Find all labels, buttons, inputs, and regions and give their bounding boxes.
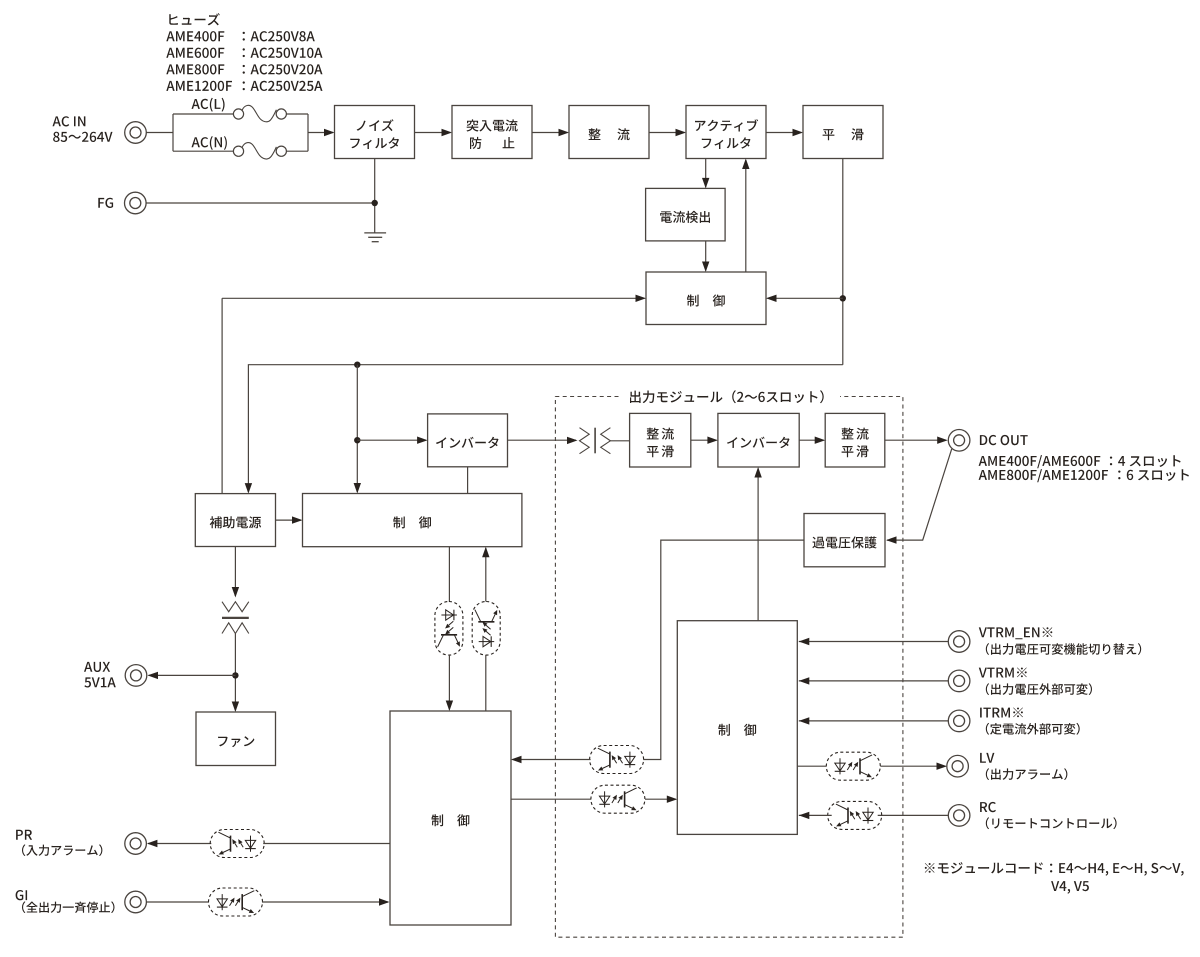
optocoupler LV [826,752,880,780]
wire to rectifier-smoothing 2 [799,439,824,441]
wire opto V1 to control C [448,655,450,709]
DC OUT label [980,435,1028,445]
terminal LV [947,755,969,777]
wire inverter to transformer T1 [508,439,577,441]
terminal VTRM_EN [948,631,970,653]
LV wire from module control [797,765,826,767]
AUX label [84,662,110,672]
wire control C to opto V2 [485,655,487,711]
wire smoothing down to control A right [842,159,844,365]
junction dot on smoothing line [840,295,846,301]
wire control B to opto V1 [448,547,450,602]
RC wire from terminal [878,814,949,816]
wire opto H1 to control C [513,759,591,761]
terminal RC [948,805,970,827]
optocoupler PR [210,830,264,858]
junction dot AUX [232,672,238,678]
wire active filter to smoothing [766,132,802,134]
wire OVP to opto H1 corner [643,540,804,759]
wire opto PR to terminal [148,843,211,845]
RC labels [980,802,996,812]
terminal AUX [125,665,147,687]
wire noise filter to inrush block [415,132,451,134]
wire into fan [232,702,239,713]
LV labels [980,753,994,763]
GI label [16,890,28,900]
AC IN label [53,116,86,126]
terminal FG [125,192,147,214]
VTRM wire [799,680,949,682]
block control C (house-keeping) [390,711,511,925]
optocoupler H2 (control C to module control) [591,785,645,813]
dashed output module enclosure [555,397,903,938]
wire to DC OUT [885,439,946,441]
wire to module inverter [691,439,717,441]
wire DC OUT diagonal to OVP [887,449,952,540]
wire control A to active filter feedback [745,160,747,272]
fuse bridge frame [172,114,174,151]
terminal DC OUT [948,430,970,452]
junction dot FG [372,200,378,206]
wire into control A right [768,297,843,299]
block current detect [646,188,726,241]
wire transformer to AUX junction [234,623,236,634]
wire bus down to control B [356,365,358,492]
block inrush current prevention [452,106,532,159]
wire to AUX terminal [149,674,236,676]
terminal GI [125,891,147,913]
wire down to aux power supply left [221,298,223,493]
fuse F2 AC(N) [173,150,233,152]
block smoothing [803,106,883,159]
terminal ITRM [948,710,970,732]
wire current detect to control A [705,241,707,271]
wire inrush to rectifier [532,132,568,134]
fuse F1 AC(L) [173,113,233,115]
block noise filter [335,106,415,159]
wire opto GI to control C [262,901,388,903]
optocoupler H1 (alarm to control C) [590,746,644,774]
block module inverter [718,413,799,467]
PR label [16,830,32,840]
wire inverter bottom to control B [467,467,469,494]
optocoupler RC [828,801,882,829]
junction dot bus left [354,362,360,368]
block aux power supply [195,494,275,547]
wire bus to aux power supply with arrow [248,365,842,492]
FG label [98,198,113,208]
wire opto LV to terminal [880,765,945,767]
wire FG to ground junction [146,202,375,204]
block over-voltage protection [804,514,885,567]
optocoupler V1 [435,602,463,656]
label AC(N) [192,136,227,150]
output module title [630,390,824,403]
block module control [677,621,797,835]
wire aux psu down to transformer [234,547,236,597]
wire control A left from aux line [222,297,644,299]
ITRM labels [980,708,1023,718]
wire opto H2 to module control [645,798,676,800]
ground symbol [364,232,386,234]
VTRM_EN labels [979,627,1053,639]
ITRM wire [799,720,949,722]
wire rectifier to active filter [649,132,685,134]
optocoupler V2 [472,602,500,656]
block rectifier-smoothing 2 [825,413,885,467]
wire active filter to current detect [705,159,707,188]
label AC(L) [192,98,225,112]
wire control C to opto PR [263,843,390,845]
VTRM_EN wire [799,641,949,643]
block rectifier-smoothing 1 [630,413,691,467]
wire aux psu to control B [276,519,302,521]
module code note [925,862,1184,876]
transformer T1 (module) [580,428,590,454]
VTRM labels [979,668,1027,678]
transformer T2 (aux) [222,602,249,612]
wire noise filter bottom to ground [374,159,376,233]
junction dot inverter branch [354,437,360,443]
block rectifier [569,106,649,159]
block control A (PFC control) [646,272,766,325]
block control B (main control) [303,494,522,547]
wire module control to module inverter [757,469,759,621]
terminal AC IN [125,122,147,144]
wire opto RC to module control [799,814,832,816]
terminal PR [125,833,147,855]
wire bridge to noise filter [308,132,333,134]
wire opto V2 to control B [485,548,487,601]
block active filter [686,106,766,159]
block inverter (main) [428,414,508,467]
wire GI terminal to opto [147,901,210,903]
optocoupler GI [209,888,263,916]
wire T1 to rectifier-smoothing 1 [610,440,629,442]
wire branch to inverter [357,439,426,441]
wire control C to opto H2 [511,798,591,800]
fuse table text [169,13,220,25]
block fan [196,712,276,766]
wire AC IN to fuse bridge [146,132,173,134]
terminal VTRM [948,670,970,692]
